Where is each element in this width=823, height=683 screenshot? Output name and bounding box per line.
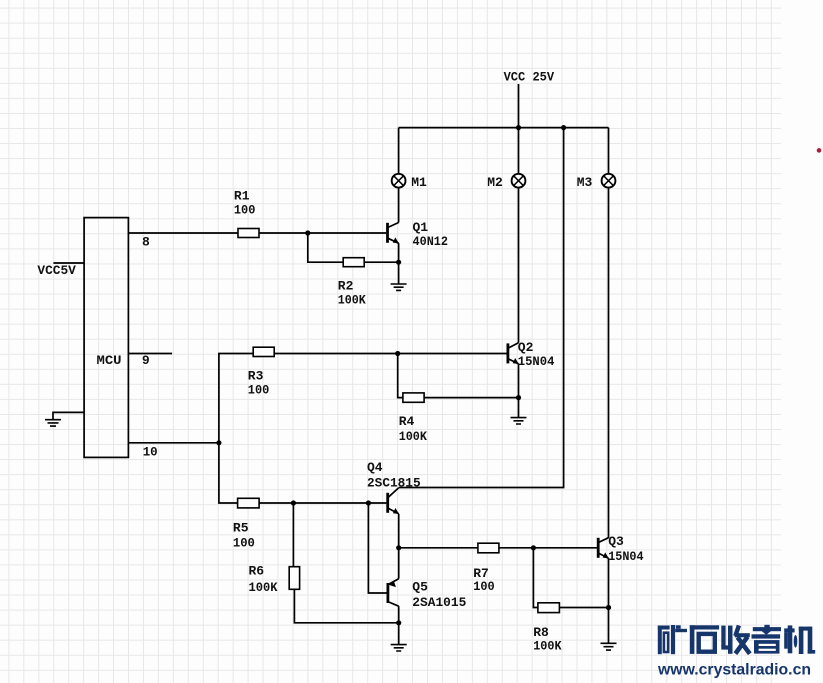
ground Q3 xyxy=(601,643,617,650)
svg-text:100: 100 xyxy=(233,536,255,551)
wire Q5 emitter up xyxy=(398,548,400,579)
svg-text:100K: 100K xyxy=(533,639,562,654)
logo char kuang xyxy=(658,625,687,654)
logo url xyxy=(657,662,811,679)
svg-text:VCC 25V: VCC 25V xyxy=(504,70,555,85)
resistor R5 xyxy=(238,498,260,508)
node junction Q4-Q5 emitter xyxy=(396,545,401,550)
node junction bus-M2 xyxy=(516,125,521,130)
wire M1 top xyxy=(398,128,400,174)
wire VCC5V stub xyxy=(53,262,84,264)
node junction Q3 emitter xyxy=(606,605,611,610)
wire M3 top xyxy=(608,128,610,174)
svg-text:Q5: Q5 xyxy=(412,579,428,594)
lamp M3 xyxy=(602,174,616,188)
node junction Q1 emitter xyxy=(396,260,401,265)
svg-text:2SC1815: 2SC1815 xyxy=(367,476,421,491)
wire M3 to Q3 collector xyxy=(608,188,610,538)
wire R2 to Q1 emitter xyxy=(364,261,398,263)
svg-text:15N04: 15N04 xyxy=(608,549,644,564)
svg-text:2SA1015: 2SA1015 xyxy=(412,595,466,610)
ground Q1 xyxy=(391,284,407,290)
ground Q2 xyxy=(511,418,527,424)
transistor Q4 xyxy=(388,488,399,514)
wire Q3 emitter to ground xyxy=(608,608,610,644)
svg-text:R2: R2 xyxy=(338,279,354,294)
component MCU U1 xyxy=(84,218,128,458)
wire R8 to Q3 emitter xyxy=(559,607,608,609)
wire pin9 stub xyxy=(128,353,172,355)
wire Q2 emitter down xyxy=(518,364,520,398)
resistor R6 xyxy=(289,567,299,590)
svg-text:Q3: Q3 xyxy=(608,534,624,549)
svg-text:R4: R4 xyxy=(399,414,415,429)
svg-text:www.crystalradio.cn: www.crystalradio.cn xyxy=(657,662,811,679)
transistor Q5 xyxy=(388,579,399,607)
resistor R3 xyxy=(253,347,274,356)
wire VCC stem xyxy=(518,84,520,128)
node junction Q2 emitter xyxy=(516,395,521,400)
svg-text:100K: 100K xyxy=(249,580,278,595)
wire Q5 base branch xyxy=(368,503,386,593)
node junction R1-R2 xyxy=(305,230,310,235)
ground MCU xyxy=(45,420,61,426)
wire Q1 emitter to ground xyxy=(398,262,400,284)
transistor Q2 xyxy=(508,343,519,364)
svg-text:15N04: 15N04 xyxy=(518,354,555,369)
wire R1 to Q1 base xyxy=(259,232,386,234)
logo char ji xyxy=(784,625,815,654)
resistor R2 xyxy=(343,258,364,267)
node junction Q4-Q5 base xyxy=(366,500,371,505)
svg-text:M2: M2 xyxy=(487,175,503,190)
transistor Q3 xyxy=(598,538,609,559)
svg-text:100: 100 xyxy=(234,203,256,218)
svg-text:MCU: MCU xyxy=(97,353,122,368)
wire R7 to Q3 base xyxy=(499,547,597,549)
svg-text:10: 10 xyxy=(143,445,158,460)
red dot marker xyxy=(817,148,822,153)
resistor R4 xyxy=(403,393,424,402)
wire R8 branch xyxy=(533,548,538,608)
resistor R7 xyxy=(478,543,499,553)
resistor R1 xyxy=(238,229,259,238)
svg-text:100K: 100K xyxy=(338,293,366,308)
logo char shi xyxy=(690,625,719,654)
wire R4 to Q2 emitter xyxy=(424,397,518,399)
lamp M2 xyxy=(512,174,526,188)
wire M1 to Q1 collector xyxy=(398,188,400,223)
wire R2 branch xyxy=(308,233,343,262)
wire Q5 collector down xyxy=(398,606,400,623)
wire VCC bus xyxy=(399,127,609,129)
lamp M1 xyxy=(392,174,406,188)
svg-text:Q2: Q2 xyxy=(518,340,534,355)
wire MCU gnd stub xyxy=(53,412,84,419)
wire pin10 xyxy=(128,442,219,444)
wire M2 to Q2 collector xyxy=(518,188,520,343)
wire Q2 emitter to ground xyxy=(518,398,520,418)
logo char shou xyxy=(721,625,750,653)
node junction bus-rail xyxy=(561,125,566,130)
svg-text:R3: R3 xyxy=(248,369,264,384)
wire pin8 xyxy=(128,232,238,234)
svg-text:100: 100 xyxy=(248,383,270,398)
svg-text:R5: R5 xyxy=(233,520,249,535)
svg-text:Q4: Q4 xyxy=(367,460,383,475)
wire output to R7 xyxy=(399,547,478,549)
node junction pin10 xyxy=(216,440,221,445)
wire Q4 emitter down xyxy=(398,514,400,548)
wire R5 to Q4 base xyxy=(259,502,386,504)
wire Q5 collector to ground xyxy=(398,623,400,645)
wire R6 bottom xyxy=(294,589,398,623)
svg-text:VCC5V: VCC5V xyxy=(37,263,76,278)
wire R4 branch xyxy=(398,354,403,398)
wire Q3 emitter down xyxy=(608,558,610,607)
svg-text:100K: 100K xyxy=(399,429,427,444)
node junction R7-R8 xyxy=(531,545,536,550)
wire R6 branch xyxy=(292,503,294,567)
svg-text:100: 100 xyxy=(473,579,495,594)
node junction R5-R6 xyxy=(291,500,296,505)
svg-text:R6: R6 xyxy=(249,564,265,579)
wire rail to Q4 collector xyxy=(399,128,564,488)
svg-text:40N12: 40N12 xyxy=(413,234,449,249)
wire R3 to Q2 base xyxy=(274,353,506,355)
wire R3 branch up xyxy=(219,354,253,443)
svg-text:R1: R1 xyxy=(234,189,250,204)
node junction R3-R4 xyxy=(395,351,400,356)
transistor Q1 xyxy=(388,223,399,244)
resistor R8 xyxy=(538,603,560,613)
node junction Q5 collector xyxy=(396,620,401,625)
svg-text:8: 8 xyxy=(142,235,150,250)
wire M2 top xyxy=(518,128,520,174)
svg-text:M1: M1 xyxy=(411,175,427,190)
wire Q1 emitter down xyxy=(398,243,400,262)
svg-text:9: 9 xyxy=(142,353,150,368)
ground Q5 xyxy=(391,645,407,651)
logo char yin xyxy=(752,625,782,654)
svg-text:M3: M3 xyxy=(577,175,593,190)
wire R5 branch down xyxy=(219,443,238,503)
